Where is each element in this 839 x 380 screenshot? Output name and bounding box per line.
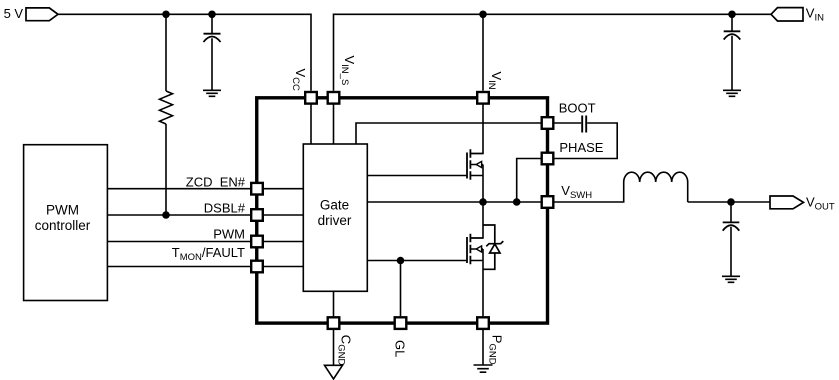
junction node GL xyxy=(397,257,405,265)
pin VIN_S xyxy=(328,92,340,104)
ground (output cap) xyxy=(722,276,740,282)
pin ZCD_EN# xyxy=(251,183,263,195)
wire 5V cap branch xyxy=(211,14,213,90)
wire output cap branch xyxy=(730,202,732,276)
wire high-side gate xyxy=(367,175,467,177)
svg-text:DSBL#: DSBL# xyxy=(204,201,246,216)
gate driver box xyxy=(303,144,367,291)
svg-text:CGND: CGND xyxy=(336,335,354,366)
wire low-side gate xyxy=(367,260,467,262)
svg-text:ZCD_EN#: ZCD_EN# xyxy=(186,175,246,190)
wire PHASE internal xyxy=(517,159,541,203)
svg-text:PHASE: PHASE xyxy=(559,140,603,155)
power flag VOUT xyxy=(770,196,804,209)
wire PGND to ground xyxy=(482,330,484,365)
ground arrow (CGND) xyxy=(325,365,343,379)
transistor Q2 low-side MOSFET xyxy=(467,234,483,264)
pin BOOT xyxy=(542,117,554,129)
inductor output xyxy=(624,172,688,182)
pin VIN xyxy=(477,92,489,104)
junction node VSWH-phase xyxy=(513,198,521,206)
wire VIN cap branch xyxy=(731,14,733,90)
pin PHASE xyxy=(542,153,554,165)
wire BOOT external loop xyxy=(554,123,617,159)
svg-text:PWM: PWM xyxy=(46,203,79,218)
svg-text:VOUT: VOUT xyxy=(806,195,835,213)
resistor (5V to DSBL#) xyxy=(160,91,173,124)
wire GL drop xyxy=(400,261,402,317)
wire BOOT internal xyxy=(356,123,541,144)
svg-text:GL: GL xyxy=(393,340,408,357)
IC boundary box xyxy=(257,98,548,323)
svg-text:Gate: Gate xyxy=(320,198,349,213)
ground (VIN cap) xyxy=(723,90,741,96)
wire LS drain vertical xyxy=(470,202,483,238)
capacitor VIN decoupling xyxy=(724,31,741,39)
pin VSWH xyxy=(542,196,554,208)
wire 5V rail xyxy=(58,14,311,90)
capacitor 5V decoupling xyxy=(204,34,221,42)
pin TMON/FAULT xyxy=(251,261,263,273)
capacitor output xyxy=(723,222,740,230)
transistor Q1 high-side MOSFET xyxy=(467,149,483,179)
wire resistor branch xyxy=(165,14,167,215)
pin GL xyxy=(395,317,407,329)
wire VCC internal xyxy=(310,104,312,144)
wire PWM xyxy=(107,241,303,243)
junction node 5V-cap xyxy=(208,11,216,19)
wire TMON/FAULT xyxy=(107,266,303,268)
wire inductor to VOUT flag xyxy=(688,182,770,202)
wire VIN to HS drain xyxy=(470,104,483,153)
svg-text:BOOT: BOOT xyxy=(559,101,596,116)
wire VSWH to inductor xyxy=(554,182,623,202)
wire CGND drop xyxy=(333,291,335,316)
svg-text:PWM: PWM xyxy=(213,227,245,242)
power flag 5V xyxy=(26,8,58,21)
junction node 5V-resistor xyxy=(162,11,170,19)
wire ZCD_EN# xyxy=(107,188,303,190)
pin PGND xyxy=(477,317,489,329)
wire LS source to PGND pin xyxy=(482,249,484,316)
wire VSWH internal xyxy=(367,201,540,203)
pin DSBL# xyxy=(251,209,263,221)
diode body zener xyxy=(483,225,503,269)
wire VIN pin drop xyxy=(482,14,484,90)
capacitor BOOT xyxy=(582,116,586,133)
wire VIN_S internal xyxy=(333,104,335,144)
PWM controller box xyxy=(24,145,108,301)
wire DSBL# xyxy=(107,214,303,216)
svg-text:VIN: VIN xyxy=(806,5,824,23)
junction node VIN-cap xyxy=(728,11,736,19)
wire VIN rail xyxy=(334,14,772,90)
svg-text:5 V: 5 V xyxy=(4,6,24,21)
svg-text:VSWH: VSWH xyxy=(561,183,592,201)
pin PWM xyxy=(251,236,263,248)
svg-text:controller: controller xyxy=(35,218,91,233)
svg-text:VCC: VCC xyxy=(290,69,308,92)
svg-text:driver: driver xyxy=(318,213,352,228)
svg-text:PGND: PGND xyxy=(487,335,505,365)
junction node VIN-pin xyxy=(479,11,487,19)
wire CGND to arrow ground xyxy=(333,330,335,366)
pin VCC xyxy=(305,92,317,104)
wire HS source vertical xyxy=(482,165,484,203)
svg-text:VIN_S: VIN_S xyxy=(339,56,357,86)
svg-text:TMON/FAULT: TMON/FAULT xyxy=(172,245,245,263)
svg-text:VIN: VIN xyxy=(486,72,504,90)
pin CGND xyxy=(328,317,340,329)
power flag VIN xyxy=(771,8,803,21)
ground (5V cap) xyxy=(203,90,221,96)
junction node VOUT-cap xyxy=(727,198,735,206)
ground (PGND) xyxy=(474,365,493,372)
junction node VSWH-fets xyxy=(479,198,487,206)
junction node DSBL# xyxy=(162,211,170,219)
